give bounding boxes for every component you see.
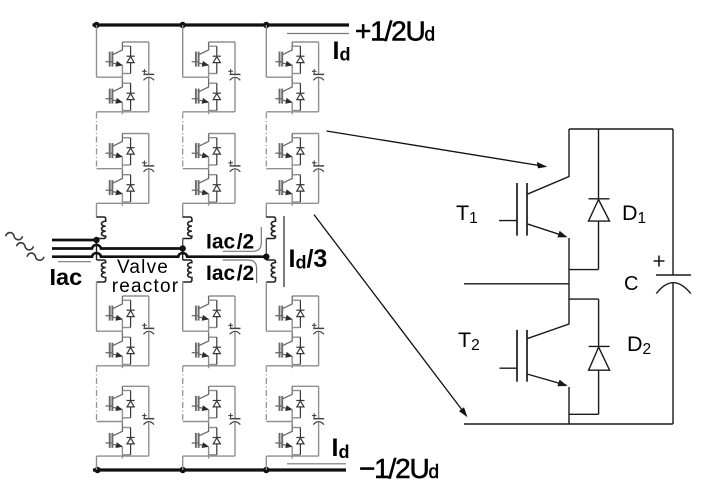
node dot top B bbox=[180, 22, 186, 28]
svg-text:+1/2Ud: +1/2Ud bbox=[355, 16, 435, 47]
wire bus to SM C1 bbox=[265, 25, 267, 77]
AC junction dot A bbox=[93, 237, 99, 243]
wire SM B2 to reactor bbox=[182, 203, 184, 217]
Iac/2 lower guide curve bbox=[223, 260, 257, 283]
T2 emitter arrowhead bbox=[557, 380, 567, 387]
wire junction C to lower reactor bbox=[265, 257, 267, 260]
diode D1 bbox=[569, 129, 610, 270]
Id arrow line bottom bbox=[287, 463, 346, 465]
AC source squiggle 1 bbox=[6, 233, 23, 240]
submodule cell A1 bbox=[97, 42, 155, 114]
svg-text:D2: D2 bbox=[627, 332, 651, 358]
dash-dot omitted cells A lower bbox=[96, 366, 98, 422]
wire junction B to lower reactor bbox=[182, 249, 184, 261]
submodule cell B2 bbox=[183, 134, 241, 206]
submodule cell A4 bbox=[97, 386, 155, 458]
wire SM C4 to bottom bus bbox=[265, 456, 267, 470]
valve reactor A lower bbox=[97, 260, 106, 282]
svg-text:Id: Id bbox=[332, 434, 350, 462]
top rail bbox=[569, 128, 673, 130]
callout arrow to bottom bbox=[314, 215, 468, 418]
bottom rail bbox=[464, 423, 673, 425]
wire SM A4 to bottom bus bbox=[96, 456, 98, 470]
diode D2 bbox=[569, 299, 610, 414]
submodule cell C2 bbox=[266, 134, 324, 206]
dash-dot omitted cells A upper bbox=[96, 113, 98, 169]
AC junction dot C bbox=[263, 254, 269, 260]
wire reactor to SM B3 bbox=[182, 282, 184, 332]
submodule cell C1 bbox=[266, 42, 324, 114]
wire junction A to lower reactor bbox=[96, 240, 98, 260]
svg-text:T2: T2 bbox=[458, 328, 480, 354]
Id arrow line top bbox=[287, 33, 349, 35]
wire reactor to SM A3 bbox=[96, 282, 98, 332]
AC junction dot B bbox=[180, 245, 186, 251]
AC phase line 2 with hop bbox=[52, 245, 183, 249]
node dot top C bbox=[263, 22, 269, 28]
svg-text:Id/3: Id/3 bbox=[289, 245, 328, 273]
valve reactor B lower bbox=[183, 260, 192, 282]
bottom DC bus bbox=[93, 468, 346, 471]
svg-text:C: C bbox=[624, 273, 638, 295]
submodule cell B1 bbox=[183, 42, 241, 114]
submodule cell B4 bbox=[183, 386, 241, 458]
submodule cell A3 bbox=[97, 296, 155, 368]
transistor T2 bbox=[500, 284, 570, 424]
valve reactor B upper bbox=[183, 217, 192, 239]
wire bus to SM B1 bbox=[182, 25, 184, 77]
capacitor C bbox=[656, 129, 691, 424]
dash-dot omitted cells B lower bbox=[182, 366, 184, 422]
valve reactor C lower bbox=[266, 260, 275, 282]
node dot bottom B bbox=[180, 467, 186, 473]
dash-dot omitted cells C upper bbox=[265, 113, 267, 169]
node dot bottom C bbox=[263, 467, 269, 473]
AC phase line 3 with hops bbox=[52, 253, 266, 257]
wire SM B4 to bottom bus bbox=[182, 456, 184, 470]
transistor T1 bbox=[499, 129, 569, 284]
T1 emitter arrowhead bbox=[557, 231, 567, 238]
AC source squiggle 3 bbox=[27, 253, 44, 260]
submodule cell C3 bbox=[266, 296, 324, 368]
callout arrow to T1 bbox=[327, 131, 548, 168]
top DC bus bbox=[93, 23, 350, 26]
svg-text:Valve: Valve bbox=[117, 257, 169, 278]
Iac arrow line bbox=[58, 261, 91, 263]
dash-dot omitted cells B upper bbox=[182, 113, 184, 169]
wire SM A2 to reactor bbox=[96, 203, 98, 217]
svg-text:D1: D1 bbox=[622, 201, 646, 227]
dash-dot omitted cells C lower bbox=[265, 366, 267, 422]
wire reactor to SM C3 bbox=[265, 282, 267, 332]
wire SM C2 to reactor bbox=[265, 203, 267, 217]
valve reactor C upper bbox=[266, 217, 275, 239]
submodule cell C4 bbox=[266, 386, 324, 458]
AC source squiggle 2 bbox=[17, 243, 34, 250]
svg-text:Iac: Iac bbox=[50, 264, 83, 290]
svg-text:Iac/2: Iac/2 bbox=[206, 230, 254, 253]
midpoint wire bbox=[464, 283, 569, 285]
Id/3 direction line bbox=[283, 216, 285, 287]
svg-text:Id: Id bbox=[333, 37, 351, 65]
node dot bottom A bbox=[94, 467, 100, 473]
svg-text:−1/2Ud: −1/2Ud bbox=[359, 453, 439, 484]
capacitor plus sign bbox=[654, 256, 665, 267]
node dot top A bbox=[93, 22, 99, 28]
submodule cell B3 bbox=[183, 296, 241, 368]
svg-text:T1: T1 bbox=[456, 201, 478, 227]
AC phase line 1 bbox=[52, 239, 97, 242]
svg-text:Iac/2: Iac/2 bbox=[206, 262, 254, 285]
svg-text:reactor: reactor bbox=[112, 276, 180, 297]
wire bus to SM A1 bbox=[96, 25, 98, 77]
Iac/2 upper guide curve bbox=[223, 227, 262, 251]
submodule cell A2 bbox=[97, 134, 155, 206]
valve reactor A upper bbox=[97, 217, 106, 239]
